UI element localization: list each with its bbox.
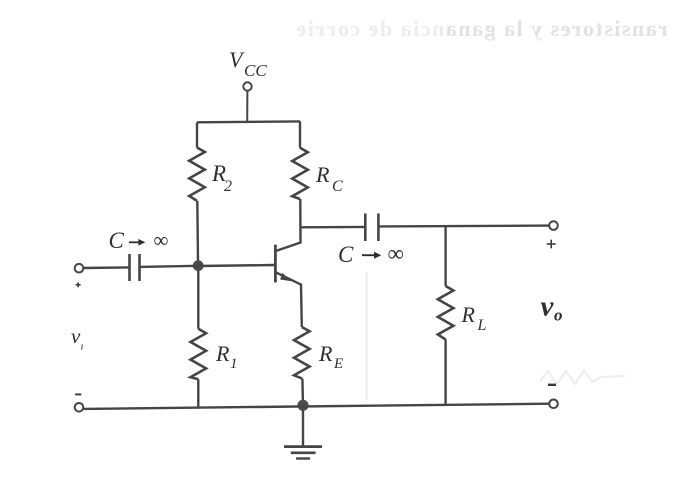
wire R_C top lead — [299, 121, 301, 147]
label VCC — [229, 47, 267, 80]
wire RL bottom lead — [444, 340, 446, 405]
wire bottom rail — [83, 404, 549, 409]
capacitor C output — [365, 214, 378, 242]
wire RL top lead — [444, 226, 446, 286]
label vo — [541, 291, 563, 325]
resistor R2 — [189, 148, 205, 201]
wire ground stem — [302, 409, 304, 446]
svg-text:R: R — [215, 341, 230, 366]
svg-text:R: R — [318, 341, 333, 366]
resistor RC — [292, 148, 308, 199]
svg-text:ı: ı — [81, 341, 84, 353]
svg-text:v: v — [541, 291, 555, 323]
resistor R1 — [191, 329, 207, 380]
svg-text:V: V — [229, 47, 245, 72]
bleed-through mirrored text (decorative) — [295, 16, 668, 41]
resistor RE — [294, 327, 310, 379]
svg-text:∞: ∞ — [388, 241, 404, 266]
svg-text:∞: ∞ — [154, 228, 169, 252]
svg-text:C: C — [338, 242, 354, 267]
svg-text:ransistores y la ganancia de c: ransistores y la ganancia de corrie — [295, 16, 668, 41]
plus sign input — [76, 282, 81, 287]
label R1 — [215, 341, 238, 372]
label R2 — [211, 161, 232, 195]
ground — [284, 447, 322, 459]
plus sign output — [547, 240, 556, 249]
svg-text:R: R — [315, 162, 330, 187]
terminal input top — [75, 264, 84, 273]
transistor Q1 emitter arrow — [280, 273, 291, 281]
svg-text:E: E — [333, 356, 343, 372]
node emitter-ground junction — [297, 400, 308, 411]
wire VCC stem — [246, 91, 248, 122]
svg-text:C: C — [109, 228, 125, 253]
wire input to cap — [83, 266, 129, 269]
terminal output bottom — [549, 400, 558, 409]
wire cap to output terminal — [378, 224, 549, 227]
wire R2 bottom lead — [196, 201, 199, 261]
resistor RL — [438, 286, 454, 340]
label C -> inf (output) — [338, 241, 404, 267]
bleed-through zigzag (decorative) — [540, 371, 625, 384]
terminal input bottom — [75, 403, 84, 412]
svg-text:R: R — [461, 302, 476, 327]
svg-text:v: v — [71, 324, 81, 348]
svg-text:2: 2 — [224, 178, 232, 195]
wire RE bottom lead — [301, 379, 304, 402]
label vi — [71, 324, 84, 353]
wire top bus — [197, 120, 300, 123]
capacitor C input — [130, 254, 140, 281]
wire base — [198, 265, 274, 266]
label RL — [461, 302, 487, 334]
wire emitter lead — [276, 273, 302, 327]
minus sign output — [548, 384, 556, 386]
label C -> inf (input) — [109, 228, 169, 253]
minus sign input — [75, 393, 81, 395]
wire R1 top lead — [197, 270, 199, 329]
wire collector to output cap — [301, 226, 366, 229]
wire collector lead — [277, 199, 301, 251]
label RC — [315, 162, 343, 195]
label RE — [318, 341, 343, 372]
node base junction — [193, 260, 204, 271]
wire cap to base node — [140, 266, 199, 267]
svg-text:C: C — [332, 178, 343, 195]
transistor Q1 base bar — [274, 245, 277, 283]
wire R2 top lead — [196, 122, 198, 147]
svg-text:1: 1 — [230, 356, 238, 372]
terminal VCC — [243, 82, 251, 90]
svg-text:o: o — [554, 306, 563, 325]
bleed-through vertical line (decorative) — [366, 272, 368, 400]
terminal output top — [549, 221, 558, 230]
wire R1 bottom lead — [197, 379, 199, 406]
svg-text:L: L — [477, 317, 487, 334]
svg-text:CC: CC — [244, 61, 267, 80]
